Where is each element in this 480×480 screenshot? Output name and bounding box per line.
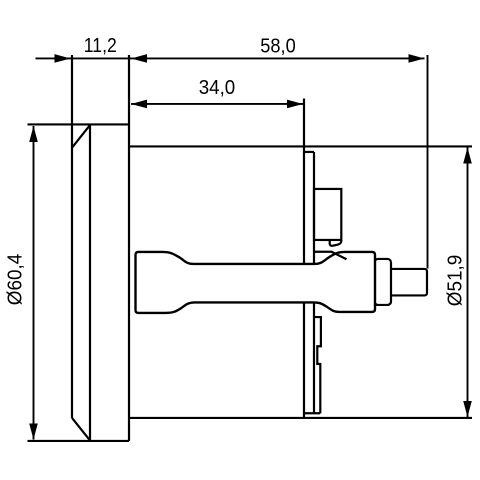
upper terminal block <box>314 189 341 240</box>
arrow 58,0 right (points right) <box>409 54 425 63</box>
dimension line Ø60,4 <box>33 126 35 440</box>
lower rear block with notched edge <box>314 317 321 413</box>
svg-text:Ø60,4: Ø60,4 <box>5 254 27 306</box>
bezel back face + 11,2/58,0 shared extension <box>128 55 130 441</box>
bezel top edge + Ø60,4 top extension <box>28 123 130 125</box>
rear strip right edge <box>313 152 315 413</box>
bezel bottom edge + Ø60,4 bottom extension <box>28 440 130 442</box>
terminal block foot wedge <box>330 240 342 246</box>
arrow 58,0 left (points left) <box>131 54 147 63</box>
arrow 34,0 right (points right) <box>287 100 303 109</box>
svg-text:Ø51,9: Ø51,9 <box>444 255 466 307</box>
arrow 11,2 left (points right) <box>55 54 71 63</box>
arrow 34,0 left (points left) <box>131 100 147 109</box>
arrow Ø60,4 up <box>29 126 38 142</box>
svg-text:34,0: 34,0 <box>199 77 236 99</box>
bezel top bevel diagonal <box>72 125 90 148</box>
case top edge + Ø51,9 top extension line <box>129 145 472 147</box>
svg-text:58,0: 58,0 <box>260 35 296 57</box>
bezel rim inner line <box>89 124 91 441</box>
arrow Ø60,4 down <box>29 423 38 439</box>
rear tab line crossing clamp taper <box>314 252 347 260</box>
case bottom edge + Ø51,9 bottom extension line <box>129 417 472 419</box>
rear strip top cap <box>304 151 314 153</box>
case back edge + 34,0 right extension line <box>303 98 305 418</box>
top dimension line 11,2 / 58,0 <box>36 57 425 59</box>
bezel front face + 11,2 left extension <box>71 55 73 418</box>
dimension line Ø51,9 <box>467 147 469 417</box>
dimension line 34,0 <box>131 103 303 105</box>
bezel bottom bevel diagonal <box>72 418 90 441</box>
58,0 right extension line <box>427 55 429 269</box>
arrow Ø51,9 up <box>463 147 472 163</box>
rear strip bottom cap <box>304 412 320 414</box>
arrow Ø51,9 down <box>463 401 472 417</box>
mounting clamp bracket <box>136 252 376 313</box>
hex nut <box>375 259 392 305</box>
threaded shaft <box>390 269 428 296</box>
svg-text:11,2: 11,2 <box>84 35 117 57</box>
